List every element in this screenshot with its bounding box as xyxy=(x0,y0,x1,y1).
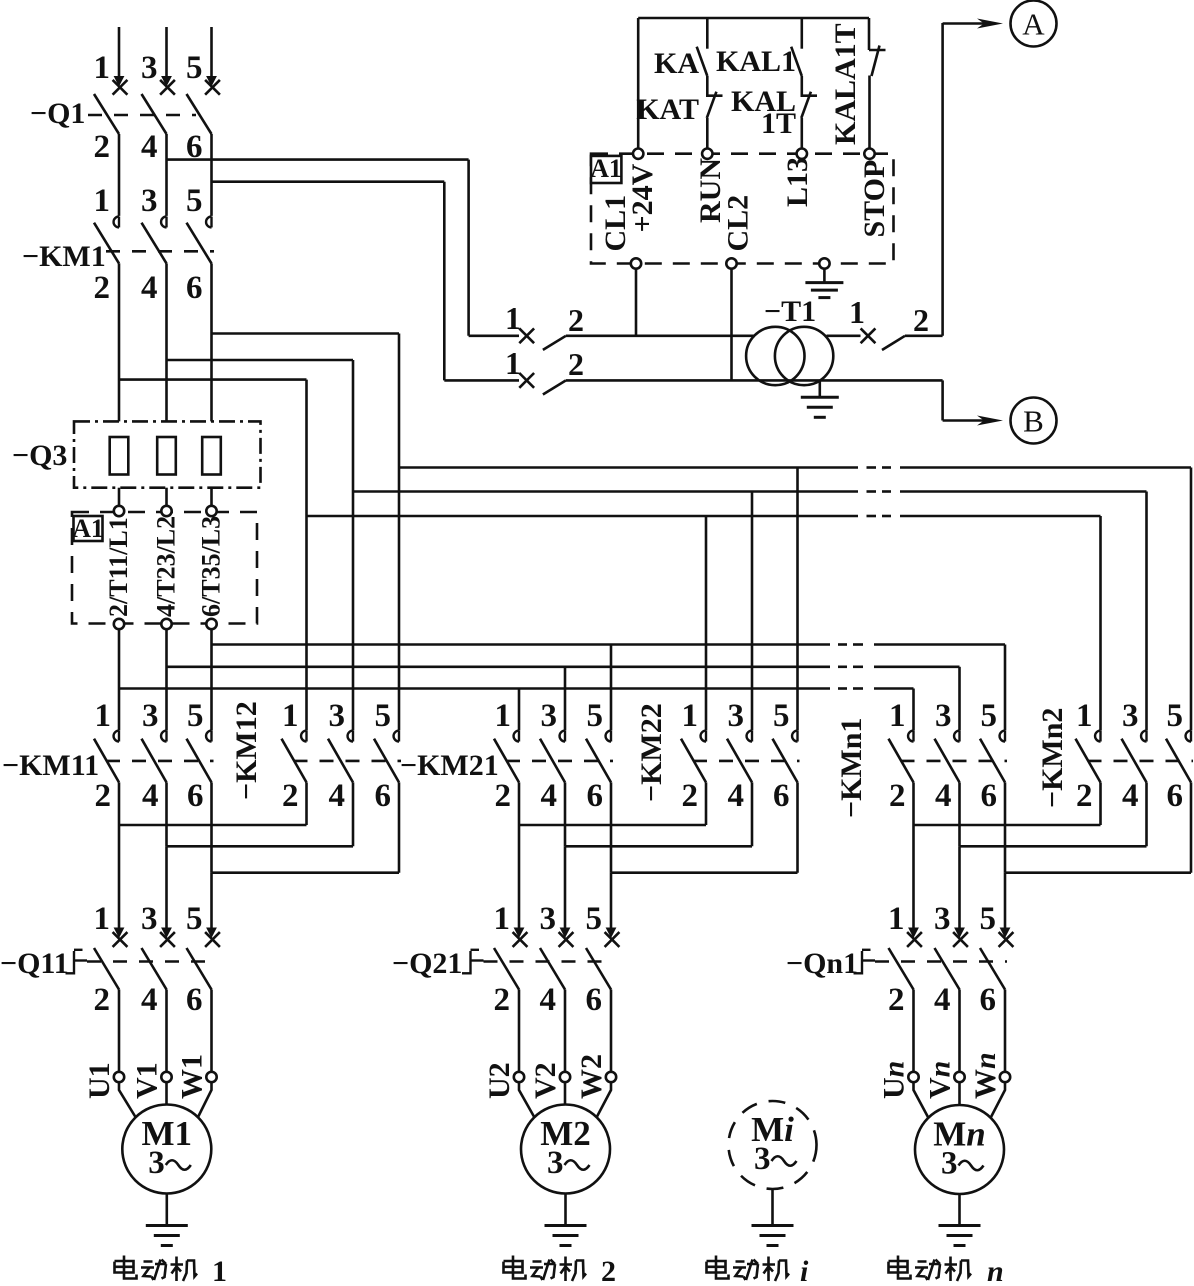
svg-text:6: 6 xyxy=(186,270,203,306)
svg-text:5: 5 xyxy=(186,901,203,937)
svg-text:5: 5 xyxy=(375,698,392,734)
svg-text:6: 6 xyxy=(773,778,790,814)
relay contact KAT xyxy=(636,76,722,149)
svg-text:3: 3 xyxy=(728,698,745,734)
svg-text:6: 6 xyxy=(375,778,392,814)
motor Mn xyxy=(878,1052,1011,1245)
svg-text:6: 6 xyxy=(1167,778,1184,814)
svg-text:2: 2 xyxy=(94,270,111,306)
svg-text:−KM11: −KM11 xyxy=(2,749,99,782)
breaker Q1 xyxy=(30,50,220,216)
svg-text:W1: W1 xyxy=(176,1054,209,1099)
relay contact KA xyxy=(654,18,707,80)
wire KM12 feeders xyxy=(307,468,400,731)
svg-text:−KM22: −KM22 xyxy=(635,703,668,802)
soft starter unit A1 xyxy=(72,488,257,731)
svg-text:6: 6 xyxy=(187,778,204,814)
label 电动机 n xyxy=(889,1255,1004,1286)
svg-text:4/T23/L2: 4/T23/L2 xyxy=(152,516,181,617)
svg-text:2: 2 xyxy=(94,982,111,1018)
svg-text:3: 3 xyxy=(540,901,557,937)
svg-text:2: 2 xyxy=(1076,778,1093,814)
svg-text:2/T11/L1: 2/T11/L1 xyxy=(104,517,133,617)
wire tap from Q1 pole4 to control switch row1 xyxy=(167,160,520,336)
svg-text:4: 4 xyxy=(141,982,158,1018)
svg-text:4: 4 xyxy=(142,778,159,814)
pin labels A1 xyxy=(599,157,891,252)
svg-text:Wn: Wn xyxy=(969,1052,1002,1099)
svg-text:1: 1 xyxy=(1076,698,1093,734)
svg-text:Vn: Vn xyxy=(924,1061,957,1099)
svg-text:KALA1T: KALA1T xyxy=(829,23,862,145)
svg-text:−Qn1: −Qn1 xyxy=(786,947,858,980)
svg-text:−KM1: −KM1 xyxy=(22,240,106,273)
svg-text:−KM12: −KM12 xyxy=(230,701,263,800)
svg-text:6: 6 xyxy=(981,778,998,814)
svg-text:2: 2 xyxy=(495,778,512,814)
wire soft-start bus C (pole1) xyxy=(119,689,914,731)
svg-text:3: 3 xyxy=(1122,698,1139,734)
label 电动机 1 xyxy=(115,1255,228,1286)
svg-text:5: 5 xyxy=(187,698,204,734)
svg-text:1: 1 xyxy=(94,50,111,86)
contactor KM22 xyxy=(635,698,800,814)
controller A1 box xyxy=(590,154,893,264)
breaker Q21 xyxy=(392,901,619,1072)
svg-text:5: 5 xyxy=(1167,698,1184,734)
wire soft-start bus A (pole5) xyxy=(212,645,1006,731)
motor M2 xyxy=(483,1054,616,1246)
svg-text:KAT: KAT xyxy=(636,93,699,126)
svg-text:1T: 1T xyxy=(761,107,796,140)
svg-text:2: 2 xyxy=(888,982,905,1018)
svg-text:V2: V2 xyxy=(529,1062,562,1099)
svg-text:3: 3 xyxy=(148,1145,165,1181)
svg-text:STOP: STOP xyxy=(858,160,891,238)
svg-text:1: 1 xyxy=(495,698,512,734)
transformer T1 xyxy=(746,295,860,385)
svg-text:+24V: +24V xyxy=(626,163,659,232)
svg-text:6: 6 xyxy=(980,982,997,1018)
wire CL2 to secondary xyxy=(730,269,733,381)
node B xyxy=(943,380,1057,443)
svg-text:1: 1 xyxy=(494,901,511,937)
ground A1 xyxy=(805,269,843,298)
svg-text:6/T35/L3: 6/T35/L3 xyxy=(197,516,226,617)
svg-text:1: 1 xyxy=(94,901,111,937)
svg-text:−Q21: −Q21 xyxy=(392,947,462,980)
wire CL1 to primary xyxy=(635,269,638,336)
contactor KM11 xyxy=(2,698,214,814)
wire three-phase supply into Q1 xyxy=(114,27,217,87)
svg-text:6: 6 xyxy=(186,982,203,1018)
relay contact KALA1T xyxy=(829,18,886,149)
svg-text:U2: U2 xyxy=(483,1062,516,1099)
wire soft-start bus B (pole3) xyxy=(167,667,960,731)
wire +24V bus xyxy=(638,18,869,149)
svg-text:A1: A1 xyxy=(72,514,104,543)
svg-text:W2: W2 xyxy=(575,1054,608,1099)
svg-text:4: 4 xyxy=(329,778,346,814)
svg-text:4: 4 xyxy=(728,778,745,814)
wire tap pole2 to bus3 xyxy=(119,380,307,516)
svg-text:4: 4 xyxy=(934,982,951,1018)
svg-text:1: 1 xyxy=(888,901,905,937)
svg-text:4: 4 xyxy=(541,778,558,814)
svg-text:KA: KA xyxy=(654,47,699,80)
wire bypass bus 1 (pole5) xyxy=(399,468,1191,731)
svg-text:2: 2 xyxy=(682,778,699,814)
ground T1 xyxy=(801,380,839,417)
contactor KM1 xyxy=(22,183,214,421)
svg-text:1: 1 xyxy=(682,698,699,734)
svg-text:3: 3 xyxy=(934,901,951,937)
svg-text:1: 1 xyxy=(212,1255,227,1286)
svg-text:2: 2 xyxy=(889,778,906,814)
contactor KM21 xyxy=(400,698,613,814)
fuse-switch Q3 xyxy=(12,421,261,487)
svg-text:−KMn2: −KMn2 xyxy=(1036,708,1069,808)
wire tap pole4 to bus2 xyxy=(167,360,354,492)
label 电动机 i xyxy=(707,1255,810,1286)
svg-text:2: 2 xyxy=(568,302,584,338)
contactor KM12 xyxy=(230,698,401,814)
svg-text:5: 5 xyxy=(773,698,790,734)
svg-text:2: 2 xyxy=(282,778,299,814)
contactor KMn1 xyxy=(835,698,1007,818)
svg-text:2: 2 xyxy=(94,129,111,165)
svg-text:3: 3 xyxy=(141,50,158,86)
wire KM21/KM22 outputs join to Q21 xyxy=(519,782,798,928)
svg-text:3: 3 xyxy=(141,901,158,937)
svg-text:2: 2 xyxy=(95,778,112,814)
svg-text:B: B xyxy=(1023,404,1044,439)
svg-text:A1: A1 xyxy=(590,154,622,183)
contactor KMn2 xyxy=(1036,698,1193,814)
wire KMn1/KMn2 outputs join to Qn1 xyxy=(914,782,1192,928)
wire tap from Q1 pole6 to control switch row2 xyxy=(212,182,520,381)
label 电动机 2 xyxy=(504,1255,617,1286)
svg-text:3: 3 xyxy=(547,1145,564,1181)
svg-text:CL2: CL2 xyxy=(722,195,755,252)
motor Mi (dashed future unit) xyxy=(729,1101,817,1246)
svg-text:1: 1 xyxy=(505,300,521,336)
svg-text:6: 6 xyxy=(587,778,604,814)
svg-text:−Q11: −Q11 xyxy=(0,947,69,980)
svg-text:U1: U1 xyxy=(83,1062,116,1099)
svg-text:−Q1: −Q1 xyxy=(30,97,85,130)
breaker Qn1 xyxy=(786,901,1013,1072)
svg-text:5: 5 xyxy=(587,698,604,734)
svg-text:3: 3 xyxy=(142,698,159,734)
wire KM11/KM12 outputs join to Q11 xyxy=(119,782,399,928)
svg-text:−KMn1: −KMn1 xyxy=(835,718,868,818)
svg-text:5: 5 xyxy=(586,901,603,937)
svg-text:i: i xyxy=(800,1255,809,1286)
terminals on A1 box xyxy=(631,149,875,269)
svg-text:A: A xyxy=(1022,7,1045,42)
breaker Q11 xyxy=(0,901,220,1072)
svg-text:3: 3 xyxy=(329,698,346,734)
svg-text:V1: V1 xyxy=(131,1062,164,1099)
svg-text:KAL1: KAL1 xyxy=(716,45,796,78)
wire bypass bus 2 (pole3) xyxy=(353,492,1147,731)
wire tap pole6 to bus1 xyxy=(212,334,400,468)
switch fuse row1 (T1 primary) xyxy=(505,300,755,350)
switch fuse row2 (T1 secondary side) xyxy=(505,345,943,395)
svg-text:3: 3 xyxy=(541,698,558,734)
svg-text:n: n xyxy=(987,1255,1004,1286)
svg-text:4: 4 xyxy=(141,270,158,306)
svg-text:1: 1 xyxy=(849,294,865,330)
svg-text:2: 2 xyxy=(494,982,511,1018)
svg-text:5: 5 xyxy=(186,50,203,86)
svg-text:1: 1 xyxy=(889,698,906,734)
svg-text:1: 1 xyxy=(94,183,111,219)
svg-text:5: 5 xyxy=(981,698,998,734)
svg-text:4: 4 xyxy=(540,982,557,1018)
svg-text:2: 2 xyxy=(568,346,584,382)
svg-text:5: 5 xyxy=(186,183,203,219)
svg-text:3: 3 xyxy=(935,698,952,734)
svg-text:5: 5 xyxy=(980,901,997,937)
svg-text:Un: Un xyxy=(878,1061,911,1099)
svg-text:6: 6 xyxy=(586,982,603,1018)
svg-text:1: 1 xyxy=(505,345,521,381)
svg-text:4: 4 xyxy=(1122,778,1139,814)
wire bypass bus 3 (pole1) xyxy=(307,516,1101,730)
svg-text:3: 3 xyxy=(941,1146,958,1182)
switch T1 output to A xyxy=(849,294,943,350)
svg-text:2: 2 xyxy=(913,302,929,338)
svg-text:4: 4 xyxy=(141,129,158,165)
svg-text:−KM21: −KM21 xyxy=(400,749,499,782)
relay contact KAL1T xyxy=(731,76,817,149)
node A xyxy=(943,1,1057,336)
relay contact KAL1 xyxy=(716,18,802,78)
svg-text:1: 1 xyxy=(282,698,299,734)
svg-text:−T1: −T1 xyxy=(764,295,816,328)
svg-text:L13: L13 xyxy=(781,157,814,207)
svg-text:3: 3 xyxy=(141,183,158,219)
svg-text:2: 2 xyxy=(601,1255,616,1286)
motor M1 xyxy=(83,1054,217,1246)
svg-text:−Q3: −Q3 xyxy=(12,439,67,472)
svg-text:4: 4 xyxy=(935,778,952,814)
svg-text:3: 3 xyxy=(754,1141,771,1177)
svg-text:1: 1 xyxy=(95,698,112,734)
